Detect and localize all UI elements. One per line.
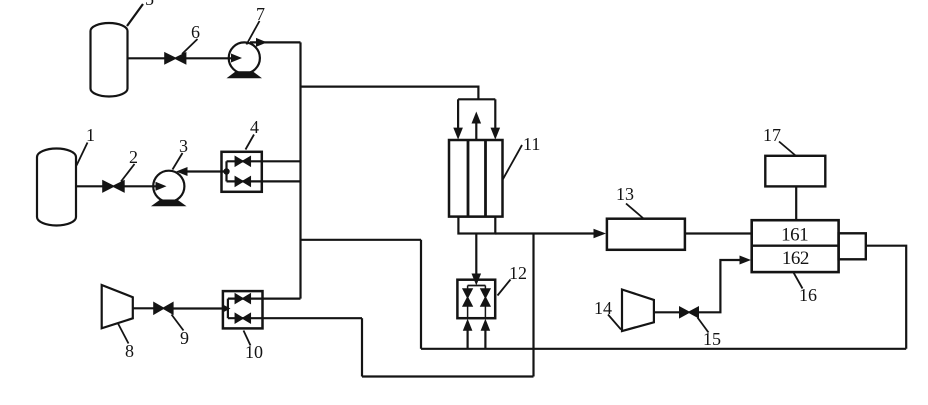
wire V4 (420, 240, 422, 349)
svg-text:13: 13 (616, 184, 634, 204)
svg-text:11: 11 (523, 134, 540, 154)
wire box13 to 16 (685, 232, 752, 234)
leader 9 (172, 315, 184, 331)
wire pump3 to box4 (187, 170, 227, 172)
junction node in box4 (223, 168, 229, 174)
leader 10 (244, 331, 251, 346)
wire valve6 to pump7 (186, 57, 231, 59)
wire header over 11 (458, 98, 495, 100)
box 10 (223, 291, 263, 328)
wire box10 top rail (228, 298, 301, 300)
svg-text:12: 12 (509, 263, 527, 283)
leader 1 (77, 143, 88, 166)
box 13 (607, 219, 685, 250)
leader 6 (182, 39, 198, 54)
wire blower8 to valve9 (133, 307, 154, 309)
valve bottom in 10 (235, 314, 250, 323)
svg-text:161: 161 (781, 225, 808, 246)
wire left downcomer (457, 99, 459, 128)
svg-text:10: 10 (245, 342, 263, 362)
wire V3 riser (361, 318, 363, 376)
wire box4 top rail (227, 160, 301, 162)
leader 7 (247, 21, 260, 45)
leader 16 (794, 273, 803, 289)
wire box4 bottom rail (227, 180, 301, 182)
svg-text:9: 9 (180, 328, 189, 348)
leader 15 (698, 318, 709, 333)
internals of 4 (225, 161, 227, 181)
leader 3 (173, 153, 183, 170)
svg-text:7: 7 (256, 4, 265, 24)
valve bottom in 4 (235, 177, 250, 186)
blower 8 (102, 285, 133, 328)
leader 12 (498, 280, 511, 296)
svg-text:17: 17 (763, 125, 781, 145)
wire branch to evaporator top (301, 87, 479, 100)
wire pump7 outlet (250, 41, 301, 43)
valve 15 (680, 307, 698, 317)
box 17 (765, 156, 825, 187)
box 4 (222, 152, 262, 192)
svg-text:1: 1 (86, 125, 95, 145)
svg-text:15: 15 (703, 329, 721, 349)
wire riser left into 12 (467, 330, 469, 349)
leader 11 (503, 145, 522, 179)
pump 3 (153, 171, 184, 202)
tank 1 (37, 149, 76, 226)
expander 16 (752, 220, 839, 272)
leader 2 (121, 164, 135, 182)
svg-text:5: 5 (145, 0, 154, 9)
wire valve15 up to 16 (698, 260, 739, 312)
nub on 16 (839, 233, 866, 259)
svg-text:6: 6 (191, 22, 200, 42)
blower 14 (622, 290, 654, 332)
valve top in 4 (235, 157, 250, 166)
wire vertical V1 (299, 42, 301, 298)
tank 5 (91, 23, 128, 97)
valve top in 10 (235, 294, 250, 303)
svg-text:3: 3 (179, 136, 188, 156)
pump 7 (229, 42, 260, 73)
svg-text:162: 162 (782, 248, 809, 269)
wire V2 drop from collector line (532, 234, 534, 377)
collector under 11 (458, 217, 495, 234)
valve 6 (165, 53, 186, 63)
heat exchanger 11 (449, 140, 503, 217)
wire riser right into 12 (484, 330, 486, 349)
wire box10 bottom rail (228, 317, 362, 319)
wire valve9 to box10 (173, 307, 228, 309)
internals of 10 (227, 299, 229, 319)
valve left in 12 (463, 286, 472, 319)
wire tank5 to valve6 (128, 57, 167, 59)
leader 13 (626, 204, 644, 219)
internals of 12: header (468, 285, 486, 287)
wire blower14 to valve15 (654, 311, 680, 313)
wire 17 to 16 (795, 186, 797, 220)
box 12 (457, 280, 495, 319)
valve 2 (103, 181, 124, 192)
wire return line (421, 348, 906, 350)
leader 14 (608, 315, 621, 330)
leader 5 (127, 4, 143, 26)
wire tank1 to valve2 (76, 185, 103, 187)
svg-text:4: 4 (250, 117, 259, 137)
wire bottom horizontal (362, 375, 534, 377)
valve right in 12 (481, 286, 490, 319)
leader 4 (246, 135, 255, 150)
svg-text:8: 8 (125, 341, 134, 361)
wire right downcomer (494, 99, 496, 128)
wire center riser with up arrow (475, 123, 477, 140)
wire valve2 to pump3 (124, 185, 156, 187)
wire nub to right drop (866, 246, 906, 349)
valve 9 (154, 303, 173, 314)
leader 17 (779, 142, 796, 156)
wire branch B2 (301, 239, 422, 241)
wire collector to box13 (495, 232, 594, 234)
leader 8 (118, 323, 129, 344)
wire collector drop to 12 (475, 234, 477, 274)
